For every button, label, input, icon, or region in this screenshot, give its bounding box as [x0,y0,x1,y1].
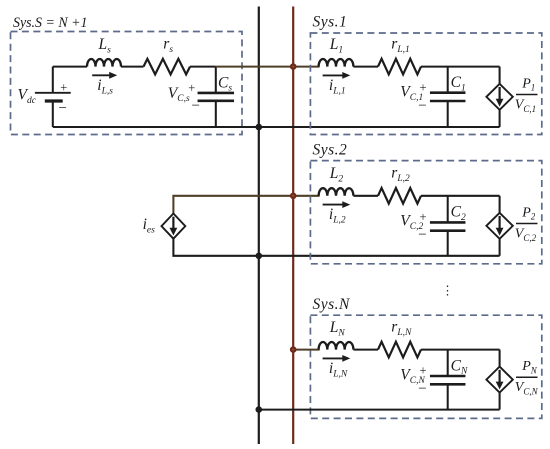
inductor Ls [87,59,121,67]
svg-text:−: − [418,227,426,243]
svg-text:+: + [188,81,195,95]
current arrow iL,s [92,74,111,76]
current arrow iL,1 [323,74,345,76]
wire node Cs to Sys.1 input (brown) [216,66,320,68]
wire C2 bottom lead [447,231,449,256]
resistor rL,N [378,342,421,358]
svg-text:−: − [418,381,426,397]
wire diamond PN bottom lead [499,393,501,410]
svg-text:−: − [192,98,200,114]
current arrow iL,N [323,357,345,359]
junction dot red bus row2 [290,193,297,200]
wire Sys.S resistor to capacitor node [190,66,216,68]
wire Sys.S battery top lead [52,67,54,92]
red bus (positive rail) [292,7,294,445]
wire Sys.S between inductor and resistor [121,66,144,68]
wire Sys.1 resistor to diamond [421,66,500,68]
svg-text:+: + [420,210,427,224]
current source ies [162,214,186,239]
current arrow iL,2 [323,204,345,206]
wire Sys.N bottom rail [259,409,500,411]
wire ies top lead (brown) [173,196,319,214]
inductor L1 [319,59,354,67]
svg-text:+: + [420,364,427,378]
svg-text:⋮: ⋮ [441,284,454,298]
label PN over VC,N [515,359,539,397]
svg-text:Sys.N: Sys.N [313,296,352,313]
wire CN bottom lead [447,384,449,409]
wire Sys.2 resistor to diamond [421,195,500,197]
dependent source P2 [486,213,512,239]
svg-text:+: + [60,80,67,94]
dashed box Sys.1 [310,33,541,135]
junction dot black bus row3 [255,406,262,413]
svg-text:−: − [59,101,67,117]
resistor rs [144,59,191,75]
inductor L2 [319,188,354,196]
dashed box Sys.S [11,32,243,135]
wire CN top lead [447,350,449,376]
wire C2 top lead [447,196,449,223]
svg-text:Sys.2: Sys.2 [313,142,348,159]
capacitor C2 [430,221,466,224]
wire Sys.S battery bottom lead [52,102,54,127]
wire Cs bottom lead [215,101,217,127]
wire Sys.N resistor to diamond [421,349,500,351]
svg-text:Sys.1: Sys.1 [313,14,348,31]
resistor rL,1 [378,59,421,75]
wire diamond P1 bottom lead [499,110,501,127]
svg-text:−: − [418,98,426,114]
capacitor CN [430,375,466,378]
dashed box Sys.N [310,315,541,418]
junction dot red bus row3 [290,346,297,353]
resistor rL,2 [378,188,421,204]
wire diamond P2 top lead [499,196,501,213]
wire bottom rail Sys.S and Sys.1 [53,126,500,128]
wire Sys.S top rail left segment [53,66,87,68]
wire ies bottom lead [173,238,499,255]
junction dot black bus row1 [255,124,262,131]
black bus (negative rail) [258,7,260,445]
wire C1 bottom lead [447,101,449,127]
wire Sys.2 inductor to resistor [353,195,378,197]
dependent source PN [486,367,512,393]
wire diamond P2 bottom lead [499,239,501,256]
capacitor C1 [430,91,466,94]
wire C1 top lead [447,67,449,93]
wire diamond P1 top lead [499,67,501,84]
svg-text:Sys.S = N +1: Sys.S = N +1 [13,15,88,31]
label P1 over VC,1 [515,76,538,114]
dashed box Sys.2 [310,161,541,264]
dependent source P1 [486,84,512,110]
label P2 over VC,2 [515,205,538,242]
junction dot black bus row2 [255,253,262,260]
junction dot red bus row1 [290,63,297,70]
capacitor Cs [198,92,235,95]
wire diamond PN top lead [499,350,501,367]
voltage source Vdc [35,93,71,101]
inductor LN [319,342,354,350]
wire Sys.N inductor to resistor [353,349,378,351]
wire Sys.1 inductor to resistor [353,66,378,68]
svg-text:+: + [420,81,427,95]
wire red bus to Sys.N inductor (brown) [292,349,319,351]
wire Cs top lead [215,67,217,93]
